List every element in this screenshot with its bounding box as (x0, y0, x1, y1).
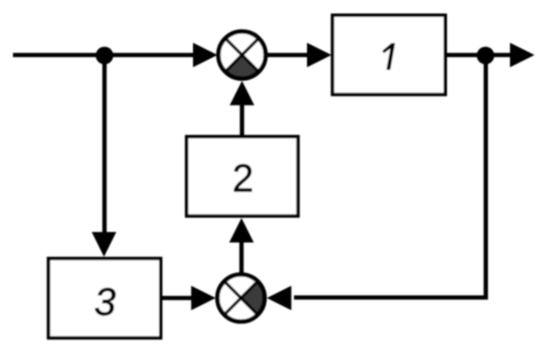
arrowhead into block 3 (top) (92, 232, 117, 257)
wire: block 2 up to S1 (240, 104, 244, 135)
arrowhead into summing junction S2 (from feedback, pointing left) (267, 286, 292, 311)
svg-text:3: 3 (94, 281, 116, 324)
arrowhead into block 2 (bottom) (229, 218, 254, 243)
svg-text:2: 2 (232, 158, 253, 201)
arrowhead into S1 (from below) (230, 81, 255, 106)
wire: input line (13, 53, 196, 57)
arrowhead into summing junction S1 (from input) (193, 43, 218, 68)
block 1 (333, 15, 446, 94)
block 2 (187, 137, 298, 216)
arrowhead into block 1 (307, 43, 332, 68)
wire: feedback line (down and left) (294, 55, 486, 298)
summing junction S2 (right sector shaded) (216, 273, 267, 324)
arrowhead into S2 (from block 3, pointing right) (191, 286, 216, 311)
node: input branch dot (96, 47, 114, 65)
wire: branch down to block 3 (102, 55, 106, 236)
block 3 (49, 259, 161, 338)
wire: block 3 output to S2 (161, 296, 192, 300)
wire: S1 output to block 1 (265, 53, 308, 57)
wire: S2 up to block 2 (239, 242, 243, 275)
node: output branch dot (477, 47, 495, 65)
summing junction S1 (bottom sector shaded) (217, 30, 268, 81)
wire: block 1 output line (446, 53, 511, 57)
arrowhead: system output (510, 43, 535, 68)
